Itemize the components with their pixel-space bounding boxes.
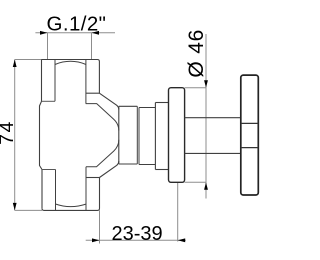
23-39 left extension [99, 210, 101, 243]
stem to handle top line [185, 117, 241, 119]
top socket depth line [42, 100, 56, 102]
stem section A bottom [119, 163, 138, 165]
flange top extension to Ø46 [185, 87, 207, 89]
bottom dome arc [56, 204, 87, 207]
stem ring B bottom [139, 164, 155, 166]
outlet face vertical [118, 106, 120, 164]
dimension G.1/2" right extension line [91, 33, 93, 60]
bottom socket inner-left wall [55, 170, 57, 211]
handle bar [241, 75, 258, 195]
top socket inner-right wall [85, 60, 87, 104]
dimension 74 top extension [15, 59, 42, 61]
arrow G.1/2 left [40, 31, 48, 35]
body top cap line [42, 60, 100, 62]
dimension Ø46 line [205, 34, 207, 199]
top socket inner-left wall [54, 60, 56, 102]
body bottom cap line [42, 208, 98, 210]
escutcheon left edge [154, 103, 156, 170]
stem ring B top [139, 107, 155, 109]
arrow 74 top [13, 60, 17, 68]
svg-text:74: 74 [0, 120, 18, 145]
handle hub line upper [241, 122, 258, 124]
stem step vertical 2 [138, 108, 140, 165]
bottom socket depth line [42, 169, 56, 171]
top inner cone line [86, 104, 119, 131]
top dome arc [55, 61, 86, 64]
svg-text:Ø 46: Ø 46 [185, 29, 208, 78]
dimension G.1/2" dimension line [35, 32, 115, 34]
dimension 23-39 line [86, 239, 186, 241]
body right lower edge [98, 178, 100, 211]
dimension 74 bottom extension [15, 209, 42, 211]
arrow 23-39 left [92, 238, 100, 242]
body upper chamfer to outlet [99, 93, 118, 109]
body lower chamfer to outlet [100, 161, 119, 178]
stem section A top [119, 105, 138, 107]
escutcheon top [155, 102, 168, 104]
wall flange [169, 88, 185, 183]
arrow 23-39 right [178, 238, 186, 242]
dimension G.1/2" left extension line [47, 33, 49, 60]
arrow G.1/2 right [92, 31, 100, 35]
arrow Ø46 top (points down to flange top) [204, 80, 208, 88]
body right upper edge [98, 62, 100, 94]
body left edge [40, 60, 43, 209]
23-39 right extension [177, 182, 179, 241]
escutcheon bottom [155, 169, 168, 171]
body bottom-right shoulder [86, 177, 100, 179]
svg-text:23-39: 23-39 [112, 223, 163, 245]
arrow 74 bottom [13, 203, 17, 211]
arrow Ø46 bottom (points up to flange bottom) [204, 182, 208, 190]
stem step vertical 1 [136, 106, 138, 164]
bottom inner cone line [86, 140, 119, 167]
svg-text:G.1/2": G.1/2" [47, 12, 107, 35]
bottom socket inner-right wall [85, 167, 87, 210]
stem to handle bottom line [185, 152, 241, 154]
flange bottom extension to Ø46 [185, 181, 207, 183]
body top-right shoulder [86, 92, 100, 94]
handle hub line lower [241, 147, 258, 149]
dimension 74 line [14, 60, 16, 211]
